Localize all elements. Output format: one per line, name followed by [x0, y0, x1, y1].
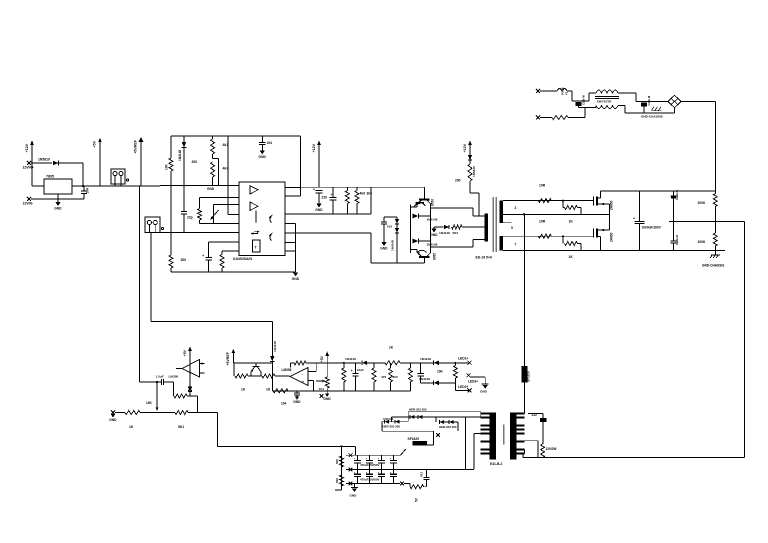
svg-text:472: 472: [420, 472, 424, 477]
svg-text:470: 470: [381, 375, 386, 379]
wire: [409, 363, 411, 368]
svg-text:1K: 1K: [569, 255, 574, 259]
wire ref rail: [233, 362, 273, 364]
wire: [540, 117, 552, 119]
wire: [528, 413, 543, 415]
MOSFET Q5 bottom: [594, 229, 610, 251]
ground GND caps: [350, 487, 359, 497]
wire: [469, 181, 471, 193]
wire: [478, 193, 480, 216]
svg-text:200: 200: [455, 179, 461, 183]
svg-text:+12V: +12V: [25, 143, 29, 152]
wire: [390, 382, 392, 391]
svg-text:GND-CHASSIS: GND-CHASSIS: [702, 264, 724, 268]
svg-text:4k7: 4k7: [223, 143, 229, 147]
wire: [295, 223, 297, 272]
op-amp U2A LM358 (left pointing): [176, 360, 205, 378]
wire long aux line up: [524, 214, 526, 413]
svg-text:1N4148: 1N4148: [419, 377, 430, 381]
svg-text:300: 300: [393, 375, 398, 379]
wire: [579, 107, 597, 109]
IC U1 PWM controller KA3525A: [239, 182, 285, 256]
svg-text:1N4148: 1N4148: [420, 357, 431, 361]
wire: [411, 206, 417, 208]
svg-text:+: +: [331, 193, 333, 197]
wire +5V rail to IC: [160, 185, 239, 187]
wire FET midpoint: [608, 204, 610, 230]
diode 1N4148 bias: [182, 142, 187, 147]
svg-text:F1: F1: [565, 91, 569, 95]
capacitor 472: [424, 469, 430, 479]
terminal LED1+: [468, 361, 472, 365]
wire sync rail to IC: [160, 232, 239, 234]
wire IC pin: [285, 222, 296, 224]
svg-text:2: 2: [515, 206, 517, 210]
resistor feedback 2: [294, 361, 306, 365]
wire totem output rail: [430, 208, 432, 247]
wire: [370, 233, 372, 263]
wire: [473, 239, 485, 241]
capacitor 220u on +12V rail: [313, 188, 322, 204]
svg-text:12VIN-: 12VIN-: [23, 202, 34, 206]
svg-text:10K: 10K: [437, 370, 444, 374]
wire: [335, 489, 342, 491]
svg-text:220: 220: [322, 196, 328, 200]
svg-text:1N4148: 1N4148: [273, 341, 277, 352]
svg-text:24N50: 24N50: [609, 232, 613, 242]
svg-text:1N4148: 1N4148: [427, 217, 438, 221]
wire: [199, 220, 201, 223]
resistor 10K led: [453, 366, 457, 379]
resistor 200K lower: [713, 233, 717, 246]
IC output transistor symbol: [269, 233, 273, 241]
wire output right side down: [744, 222, 746, 458]
svg-text:10R: 10R: [539, 184, 546, 188]
resistor feedback: [174, 394, 187, 398]
wire: [471, 376, 486, 378]
wire: [326, 388, 328, 394]
wire: [636, 101, 668, 103]
junction node: [82, 185, 84, 187]
terminal AC line: [536, 89, 540, 93]
wire: [261, 145, 263, 151]
transformer T1 secondary winding lower: [500, 236, 504, 250]
power flag +5V pot: [320, 352, 329, 378]
wire: [714, 191, 716, 194]
wire: [233, 363, 235, 376]
terminal 12VIN-: [27, 197, 31, 201]
common-mode choke L1: [595, 90, 619, 109]
svg-text:ED-19 5+9: ED-19 5+9: [476, 256, 492, 260]
svg-text:GND: GND: [293, 400, 301, 404]
diode SF1620 on aux line: [522, 366, 528, 383]
wire: [382, 421, 391, 423]
wire: [540, 90, 557, 92]
resistor 4k7 upper: [211, 139, 215, 154]
wire diagonal: [401, 449, 406, 455]
wire: [407, 412, 409, 422]
wire drive out bottom: [431, 246, 473, 248]
wire 12VIN+ down: [31, 163, 33, 186]
wire totem top rail: [371, 186, 425, 188]
wire 7805 gnd pin: [57, 194, 59, 202]
wire: [578, 243, 582, 245]
power flag +5V opamp: [183, 347, 192, 364]
svg-text:T: T: [255, 246, 258, 250]
wire base rail: [410, 205, 412, 254]
wire: [424, 486, 427, 488]
wire: [444, 421, 448, 423]
wire: [562, 236, 564, 243]
wire PWM output B: [285, 232, 371, 234]
wire: [714, 207, 716, 222]
wire: [416, 205, 418, 208]
op-amp U2B LM358 (left pointing): [290, 368, 308, 386]
svg-text:1N4148: 1N4148: [345, 357, 356, 361]
wire: [356, 187, 358, 190]
wire: [427, 444, 434, 446]
wire drop to rail1: [355, 446, 357, 455]
wire 12VIN+ to diode: [31, 162, 52, 164]
wire: [567, 90, 572, 92]
power flag +5VREF: [134, 137, 144, 186]
svg-text:HER-203 200: HER-203 200: [409, 408, 427, 412]
ground GND under 7805: [54, 202, 62, 210]
svg-text:500: 500: [335, 459, 339, 464]
terminal LED3+: [467, 373, 471, 377]
wire: [271, 376, 273, 391]
svg-text:470uF35V/50V: 470uF35V/50V: [360, 478, 380, 482]
wire drive out top: [431, 207, 473, 209]
svg-text:103: 103: [387, 225, 392, 229]
potentiometer wiper arrow: [211, 210, 219, 220]
svg-text:LM358: LM358: [282, 368, 292, 372]
svg-text:1K: 1K: [569, 220, 574, 224]
wire tap down: [218, 159, 220, 186]
diode HER-203 g2: [395, 420, 400, 424]
svg-text:22p: 22p: [187, 216, 193, 220]
svg-text:8550: 8550: [431, 199, 435, 206]
wire into 7805: [32, 185, 44, 187]
svg-text:120/2W: 120/2W: [546, 447, 557, 451]
junction to aux line: [523, 213, 525, 215]
wire: [470, 192, 479, 194]
svg-text:LED2+: LED2+: [458, 385, 468, 389]
resistor 1K ref2: [262, 374, 275, 378]
resistor 10R gate top: [538, 199, 551, 203]
junction: [341, 445, 343, 447]
svg-text:1N4148: 1N4148: [439, 231, 450, 235]
diode HER-203 g4: [418, 415, 423, 419]
svg-text:+12V: +12V: [312, 143, 316, 152]
marker x on diode: [188, 387, 192, 391]
capacitor 104 chain: [417, 363, 423, 383]
wire +12V drive rail: [301, 186, 372, 188]
diode 1N4148 chain1: [362, 361, 367, 365]
ground GND snubber: [380, 242, 388, 250]
wire: [396, 224, 398, 228]
wire rect top: [408, 411, 481, 413]
resistor 470: [389, 368, 393, 382]
diode SF1620: [413, 441, 428, 445]
transistor Q6: [251, 363, 261, 372]
capacitor X2 CBB-M: [640, 95, 651, 113]
resistor 10K bias: [169, 158, 173, 171]
wire to bridge: [674, 108, 676, 113]
junction: [343, 362, 345, 364]
connector pin mark: [161, 227, 163, 229]
diode 1N4148 clamp lower: [395, 228, 399, 233]
svg-text:200K: 200K: [698, 201, 707, 205]
svg-text:1000uF/160V: 1000uF/160V: [642, 226, 662, 230]
svg-text:4k9: 4k9: [360, 192, 366, 196]
resistor timing: [220, 255, 224, 269]
wire stub pin5: [503, 221, 511, 223]
wire: [400, 421, 409, 423]
svg-text:+: +: [202, 254, 204, 258]
wire: [356, 204, 358, 215]
resistor 200K upper: [713, 194, 717, 207]
wire: [409, 382, 411, 391]
wire: [389, 421, 394, 423]
diode 1N5819: [53, 161, 58, 166]
resistor 4k9: [345, 191, 349, 204]
wire: [183, 148, 185, 186]
capacitor 103 snubber: [381, 222, 387, 224]
potentiometer 104 body: [325, 377, 329, 388]
IC flip-flop box: [253, 240, 260, 252]
diode 1N4148 from J2 line: [270, 356, 275, 361]
wire: [409, 484, 411, 487]
wire left pin join: [480, 412, 482, 418]
wire: [435, 417, 437, 422]
wire jog down: [571, 91, 573, 101]
wire: [434, 226, 444, 228]
capacitor 222 snubber: [540, 414, 547, 445]
ground GND 220u: [315, 204, 323, 212]
diode 1N4148 chain2: [434, 361, 439, 366]
svg-text:GND: GND: [430, 233, 438, 237]
wire: [522, 454, 524, 458]
wire: [139, 381, 157, 383]
svg-text:GND: GND: [207, 187, 215, 191]
wire rect second: [391, 416, 480, 418]
wire: [618, 105, 625, 107]
wire: [455, 389, 468, 391]
transformer T1 secondary winding upper: [500, 201, 504, 223]
resistor 1K ref1: [235, 374, 248, 378]
svg-text:+: +: [633, 217, 635, 221]
wire out rail 1: [346, 454, 401, 456]
resistor 1K gate-source bottom: [565, 242, 578, 246]
wire: [525, 440, 539, 442]
wire: [568, 117, 585, 119]
wire: [346, 187, 348, 190]
ground GND led3: [480, 384, 489, 393]
junction: [454, 362, 456, 364]
wire: [367, 362, 385, 364]
terminal AC neutral: [536, 116, 540, 120]
transformer T2 core: [503, 425, 505, 445]
wire: [469, 160, 471, 164]
terminal out1: [349, 453, 353, 457]
ground GND left rail: [109, 414, 117, 422]
wire: [157, 381, 162, 383]
wire down to 1N4148: [271, 321, 273, 356]
comparator symbol in IC: [250, 186, 258, 194]
connector J2 2-pin: [145, 217, 160, 233]
svg-text:GND: GND: [315, 208, 323, 212]
wire IC pin: [285, 242, 296, 244]
wire down to +5V rail: [82, 163, 84, 186]
wire: [199, 198, 201, 209]
wire: [261, 136, 263, 143]
bridge rectifier BR1: [668, 95, 681, 108]
wire: [156, 382, 158, 405]
svg-text:104: 104: [281, 402, 287, 406]
wire: [714, 222, 716, 234]
wire long line J2 down: [150, 233, 152, 322]
resistor discharge: [552, 116, 568, 120]
svg-text:CBB-M: CBB-M: [582, 95, 586, 105]
wire: [189, 363, 191, 387]
svg-text:+5V: +5V: [320, 355, 324, 362]
wire: [306, 362, 316, 364]
connector J1 2-pin: [111, 169, 125, 186]
wire: [624, 106, 626, 114]
terminal out2: [349, 468, 353, 472]
svg-text:HER-203 200: HER-203 200: [439, 425, 457, 429]
terminal gnd left: [111, 411, 115, 415]
chassis marks: [652, 107, 662, 111]
svg-text:GND: GND: [292, 277, 300, 281]
wire potentiometer track: [213, 205, 215, 224]
wire: [618, 92, 636, 94]
terminal LED2+: [468, 388, 472, 392]
svg-text:GND: GND: [259, 155, 267, 159]
wire across: [151, 320, 272, 322]
diode 1N4148 chain3: [434, 381, 439, 386]
diode to divider: [188, 387, 192, 392]
junction: [156, 381, 158, 383]
svg-text:GND: GND: [350, 494, 358, 498]
wire: [183, 136, 185, 142]
wire: [170, 171, 172, 186]
svg-text:200K: 200K: [698, 240, 707, 244]
wire IC pin: [222, 250, 239, 252]
wire gate drive top: [503, 200, 593, 202]
svg-text:1N4148: 1N4148: [178, 150, 182, 161]
wire: [383, 224, 385, 242]
wiper arrow right: [316, 380, 325, 383]
wire +5V rail: [72, 185, 140, 187]
wire: [170, 136, 172, 158]
MOSFET Q4 top: [594, 191, 610, 206]
svg-text:+: +: [313, 188, 315, 192]
wire: [714, 246, 716, 250]
power flag +12V input: [25, 141, 34, 164]
wire: [455, 362, 468, 364]
diode 1N4148 cross top: [413, 214, 419, 219]
ground GND drive center: [430, 229, 438, 237]
wire PWM output A: [285, 213, 371, 215]
wire: [173, 382, 175, 396]
svg-text:5R1: 5R1: [453, 231, 459, 235]
wire diode to node: [59, 162, 83, 164]
wire: [221, 251, 223, 254]
resistor 1K gate-source top: [565, 206, 578, 210]
transistor Q2 8550 glyph: [414, 203, 426, 207]
wire bias to IC: [227, 136, 229, 215]
svg-text:500: 500: [335, 478, 339, 483]
wire: [430, 204, 432, 208]
wire: [433, 431, 435, 445]
resistor bleed: [410, 485, 424, 489]
wire totem bottom rail: [371, 262, 425, 264]
svg-text:1N5819: 1N5819: [472, 166, 476, 177]
wire IC pin: [285, 250, 296, 252]
wire: [271, 361, 273, 376]
svg-text:E41-B-2: E41-B-2: [490, 462, 502, 466]
IC arrows glyph: [251, 231, 260, 235]
wire: [411, 249, 417, 251]
capacitor 105: [162, 379, 164, 385]
wire: [396, 233, 398, 263]
marker: [320, 394, 324, 398]
wire jog down: [635, 93, 637, 102]
wire PWM bottom rail: [171, 271, 296, 273]
wire out rail 2: [346, 468, 474, 470]
svg-text:CBB-M: CBB-M: [647, 95, 651, 105]
svg-text:LM358: LM358: [169, 374, 179, 378]
wire: [313, 381, 315, 391]
svg-text:GND: GND: [480, 389, 488, 393]
svg-text:+5V: +5V: [93, 140, 97, 147]
wire: [472, 240, 474, 248]
svg-text:LED3+: LED3+: [468, 379, 478, 383]
wire: [221, 268, 223, 272]
wire: [473, 215, 485, 217]
wire: [563, 207, 565, 209]
wire: [714, 250, 716, 255]
wire: [404, 483, 410, 485]
wire tap: [213, 158, 219, 160]
connector pin mark: [126, 179, 128, 181]
wire: [396, 217, 398, 219]
wire: [454, 421, 458, 423]
svg-text:200: 200: [192, 160, 198, 164]
wire: [454, 363, 456, 366]
wire HV bus down: [714, 102, 716, 192]
wire IC pin: [285, 195, 301, 197]
potentiometer wiper down: [156, 400, 159, 411]
wire: [248, 375, 262, 377]
wire: [484, 377, 486, 384]
wire: [140, 412, 175, 414]
resistor 500 b: [340, 475, 344, 486]
wire: [343, 382, 345, 391]
svg-text:5V: 5V: [415, 497, 419, 502]
resistor 300: [169, 255, 173, 268]
wire: [418, 215, 430, 217]
wire output bottom return: [523, 457, 745, 459]
svg-text:LED1+: LED1+: [458, 356, 468, 360]
svg-text:+12V: +12V: [463, 143, 467, 152]
svg-text:10R: 10R: [539, 220, 546, 224]
resistor 10R gate bottom: [538, 234, 551, 238]
svg-text:10uF: 10uF: [357, 368, 364, 372]
svg-text:GND: GND: [380, 246, 388, 250]
